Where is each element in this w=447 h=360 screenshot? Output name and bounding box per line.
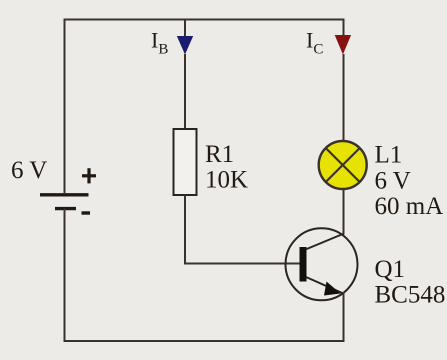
emitter diagonal <box>306 277 343 293</box>
wire lamp-to-transistor <box>343 189 345 235</box>
label + <box>82 168 96 183</box>
svg-text:10K: 10K <box>205 167 248 194</box>
svg-text:BC548: BC548 <box>375 282 446 309</box>
svg-text:R1: R1 <box>205 141 234 168</box>
svg-text:6 V: 6 V <box>375 168 411 195</box>
svg-text:60 mA: 60 mA <box>375 193 444 220</box>
battery B1 6V <box>40 195 89 209</box>
wire base horizontal <box>184 263 300 265</box>
wire base-branch stem (top) <box>184 20 186 38</box>
transistor Q1 <box>286 228 358 300</box>
base bar <box>300 247 307 282</box>
current arrow IC <box>335 35 351 55</box>
wire left lower <box>64 209 66 342</box>
wire arrow-to-resistor <box>184 54 186 129</box>
svg-text:6 V: 6 V <box>11 157 47 184</box>
collector diagonal <box>306 234 345 250</box>
svg-text:Q1: Q1 <box>375 256 406 283</box>
wire collector stem (top right) <box>343 20 345 38</box>
wire arrow-to-lamp <box>343 54 345 141</box>
wire top <box>64 19 345 21</box>
emitter arrowhead <box>324 282 341 296</box>
resistor R1 <box>174 129 197 195</box>
current arrow IB <box>177 36 193 55</box>
label - <box>82 211 91 214</box>
wire resistor-down <box>184 195 186 265</box>
lamp L1 <box>319 141 367 189</box>
svg-text:L1: L1 <box>375 142 403 169</box>
wire left upper <box>64 20 66 194</box>
wire emitter-down <box>343 292 345 342</box>
wire bottom <box>64 340 345 342</box>
